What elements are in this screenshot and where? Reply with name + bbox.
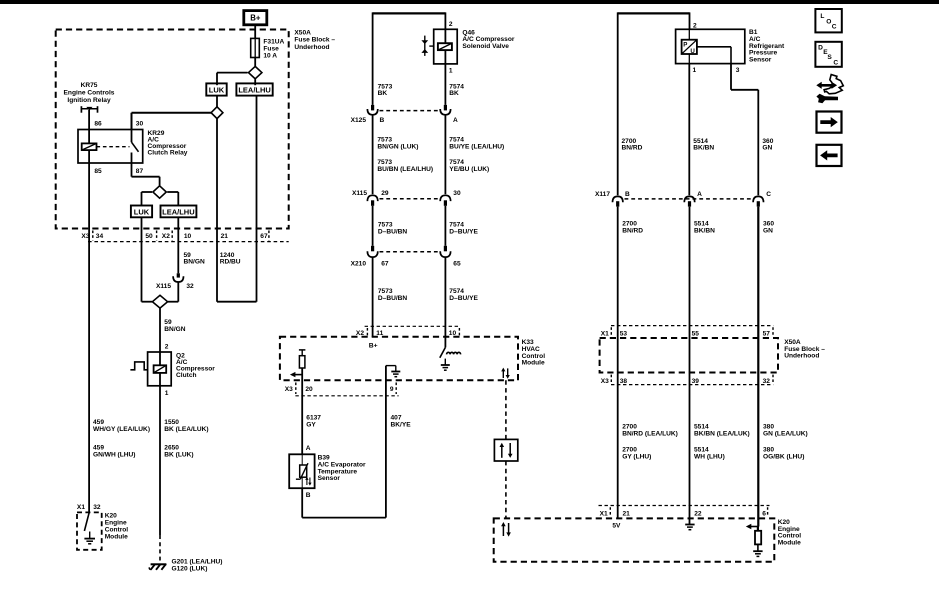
svg-text:BN/RD: BN/RD	[622, 228, 643, 235]
svg-text:BK (LUK): BK (LUK)	[164, 451, 193, 458]
svg-text:X50A: X50A	[294, 29, 311, 36]
svg-text:55: 55	[692, 330, 700, 337]
svg-text:32: 32	[186, 283, 194, 290]
svg-text:G201 (LEA/LHU): G201 (LEA/LHU)	[172, 559, 223, 566]
svg-text:LEA/LHU: LEA/LHU	[162, 207, 195, 216]
svg-text:X1: X1	[77, 504, 85, 511]
svg-text:B: B	[306, 492, 311, 499]
svg-text:Underhood: Underhood	[784, 353, 819, 360]
svg-text:BN/GN: BN/GN	[184, 259, 205, 266]
svg-text:BK/BN: BK/BN	[694, 228, 715, 235]
svg-text:86: 86	[94, 121, 102, 128]
svg-text:Module: Module	[105, 533, 128, 540]
svg-text:Module: Module	[778, 540, 801, 547]
svg-text:20: 20	[305, 386, 313, 393]
svg-text:BK/YE: BK/YE	[391, 422, 412, 429]
svg-text:6: 6	[762, 511, 766, 518]
svg-text:LUK: LUK	[134, 207, 150, 216]
svg-text:GY (LHU): GY (LHU)	[622, 454, 651, 461]
svg-text:Clutch Relay: Clutch Relay	[148, 150, 188, 157]
svg-text:50: 50	[145, 233, 153, 240]
svg-text:OG/BK (LHU): OG/BK (LHU)	[763, 454, 804, 461]
svg-text:Module: Module	[522, 360, 545, 367]
svg-text:Underhood: Underhood	[294, 44, 329, 51]
svg-text:U: U	[690, 48, 695, 55]
svg-text:38: 38	[620, 378, 628, 385]
svg-text:B: B	[380, 117, 385, 124]
svg-text:BU/YE (LEA/LHU): BU/YE (LEA/LHU)	[449, 143, 504, 150]
svg-text:BU/BN (LEA/LHU): BU/BN (LEA/LHU)	[377, 166, 433, 173]
svg-text:2: 2	[449, 21, 453, 28]
svg-text:10: 10	[184, 233, 192, 240]
svg-text:A: A	[306, 445, 311, 452]
svg-text:KR75: KR75	[81, 82, 98, 89]
svg-text:X210: X210	[351, 260, 367, 267]
svg-text:B: B	[625, 191, 630, 198]
svg-text:GN/WH (LHU): GN/WH (LHU)	[93, 451, 135, 458]
svg-text:BK (LEA/LUK): BK (LEA/LUK)	[164, 426, 208, 433]
svg-text:3: 3	[736, 67, 740, 74]
svg-text:BK/BN: BK/BN	[693, 145, 714, 152]
svg-text:D–BU/YE: D–BU/YE	[449, 228, 478, 235]
svg-text:67: 67	[381, 260, 389, 267]
svg-text:GN: GN	[763, 228, 773, 235]
svg-text:34: 34	[96, 233, 104, 240]
svg-text:X115: X115	[352, 190, 367, 197]
svg-text:2: 2	[165, 344, 169, 351]
svg-text:GN: GN	[762, 145, 772, 152]
svg-text:YE/BU (LUK): YE/BU (LUK)	[449, 166, 489, 173]
svg-text:X3: X3	[285, 386, 293, 393]
svg-text:57: 57	[763, 330, 771, 337]
svg-text:32: 32	[93, 504, 101, 511]
svg-text:Solenoid Valve: Solenoid Valve	[462, 43, 509, 50]
svg-text:G120 (LUK): G120 (LUK)	[172, 566, 208, 573]
svg-text:A: A	[697, 191, 702, 198]
svg-text:21: 21	[623, 511, 631, 518]
svg-text:32: 32	[763, 378, 771, 385]
svg-text:39: 39	[692, 378, 700, 385]
svg-text:Sensor: Sensor	[318, 475, 341, 482]
svg-text:RD/BU: RD/BU	[220, 259, 241, 266]
svg-text:10 A: 10 A	[263, 52, 277, 59]
svg-text:BN/GN: BN/GN	[164, 326, 185, 333]
svg-text:B+: B+	[369, 343, 378, 350]
svg-text:53: 53	[620, 330, 628, 337]
svg-text:X125: X125	[351, 117, 367, 124]
svg-text:LEA/LHU: LEA/LHU	[238, 86, 271, 95]
svg-text:X3: X3	[81, 233, 89, 240]
svg-text:30: 30	[453, 190, 461, 197]
svg-text:A: A	[453, 117, 458, 124]
svg-text:1: 1	[165, 390, 169, 397]
svg-text:1: 1	[693, 67, 697, 74]
svg-text:P: P	[683, 42, 687, 49]
svg-text:WH/GY (LEA/LUK): WH/GY (LEA/LUK)	[93, 426, 150, 433]
svg-text:X3: X3	[601, 378, 609, 385]
svg-text:1: 1	[449, 68, 453, 75]
svg-text:C: C	[833, 60, 838, 67]
svg-text:D–BU/BN: D–BU/BN	[378, 295, 408, 302]
svg-text:22: 22	[694, 511, 702, 518]
svg-text:WH (LHU): WH (LHU)	[694, 454, 725, 461]
svg-text:Fuse Block –: Fuse Block –	[294, 37, 335, 44]
svg-text:Clutch: Clutch	[176, 372, 197, 379]
svg-text:O: O	[826, 18, 831, 25]
svg-text:F31UA: F31UA	[263, 38, 284, 45]
svg-text:65: 65	[453, 260, 461, 267]
svg-text:C: C	[832, 23, 837, 30]
svg-text:85: 85	[94, 168, 102, 175]
svg-text:B+: B+	[250, 14, 261, 23]
svg-text:30: 30	[136, 121, 144, 128]
svg-text:GY: GY	[306, 422, 316, 429]
svg-text:X115: X115	[156, 283, 171, 290]
svg-text:L: L	[820, 13, 824, 20]
svg-text:87: 87	[136, 168, 144, 175]
svg-text:BN/GN (LUK): BN/GN (LUK)	[377, 143, 418, 150]
svg-text:Engine Controls: Engine Controls	[64, 90, 115, 97]
svg-text:S: S	[827, 54, 832, 61]
svg-text:21: 21	[221, 233, 229, 240]
svg-text:X1: X1	[601, 330, 609, 337]
svg-text:GN (LEA/LUK): GN (LEA/LUK)	[763, 431, 808, 438]
svg-text:29: 29	[381, 190, 389, 197]
svg-text:BN/RD: BN/RD	[622, 145, 643, 152]
svg-text:BK: BK	[378, 90, 388, 97]
svg-text:LUK: LUK	[209, 86, 225, 95]
svg-text:X2: X2	[162, 233, 170, 240]
svg-text:9: 9	[390, 386, 394, 393]
svg-text:X117: X117	[595, 191, 610, 198]
svg-text:C: C	[766, 191, 771, 198]
svg-text:X1: X1	[600, 511, 608, 518]
svg-text:67: 67	[260, 233, 268, 240]
svg-text:BK: BK	[449, 90, 459, 97]
svg-text:BK/BN (LEA/LUK): BK/BN (LEA/LUK)	[694, 431, 750, 438]
svg-text:5V: 5V	[612, 523, 621, 530]
svg-text:Ignition Relay: Ignition Relay	[67, 97, 111, 104]
svg-text:D–BU/BN: D–BU/BN	[378, 228, 408, 235]
svg-text:BN/RD (LEA/LUK): BN/RD (LEA/LUK)	[622, 431, 678, 438]
svg-text:D–BU/YE: D–BU/YE	[449, 295, 478, 302]
svg-text:Sensor: Sensor	[749, 56, 772, 63]
svg-text:Fuse: Fuse	[263, 45, 279, 52]
